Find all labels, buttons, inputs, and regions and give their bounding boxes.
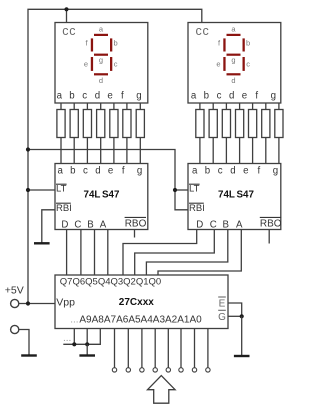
svg-text:a: a	[231, 25, 236, 34]
svg-text:c: c	[246, 60, 250, 69]
wire R11 to U2 pin d	[239, 138, 241, 164]
wire U3 A9 down	[86, 329, 88, 345]
resistor R1	[57, 110, 65, 138]
svg-text:74LS47: 74LS47	[218, 189, 254, 200]
wire stub to DS1 cc pin	[66, 9, 68, 22]
wire R4 to U1 pin d	[100, 138, 102, 164]
junction +5V rail at Vpp wire	[26, 301, 30, 305]
wire U3 A2 down	[180, 329, 182, 368]
svg-text:c: c	[82, 91, 87, 102]
wire U3 A3 down	[167, 329, 169, 368]
wire DS1 pin a to R1	[60, 103, 62, 110]
wire R12 to U2 pin e	[252, 138, 254, 164]
resistor R4	[97, 110, 105, 138]
svg-text:g: g	[231, 56, 235, 65]
wire U3 A5 down	[141, 329, 143, 368]
svg-text:Vpp: Vpp	[56, 297, 75, 309]
wire branch to U2 LT	[175, 189, 188, 191]
svg-text:c: c	[218, 166, 223, 177]
segment g of DS2	[227, 54, 241, 56]
wire DS2 pin f to R13	[265, 103, 267, 110]
wire DS1 pin g to R7	[139, 103, 141, 110]
wire +5V terminal to U3 Vpp	[19, 303, 55, 305]
wire R5 to U1 pin e	[113, 138, 115, 164]
resistor R14	[275, 110, 283, 138]
svg-text:a: a	[58, 166, 64, 177]
wire DS2 pin e to R12	[252, 103, 254, 110]
wire U3 A0 down	[207, 329, 209, 368]
svg-text:...: ...	[70, 314, 78, 325]
open pin A7	[112, 368, 116, 372]
svg-text:d: d	[95, 91, 100, 102]
svg-text:A: A	[100, 220, 107, 231]
svg-text:LT: LT	[189, 183, 200, 194]
svg-text:b: b	[114, 39, 118, 48]
wire U2 D to U3 Q3	[123, 230, 197, 276]
svg-text:b: b	[204, 91, 209, 102]
selector arrow	[148, 376, 176, 404]
segment d of DS1	[94, 73, 108, 75]
svg-text:e: e	[243, 166, 248, 177]
wire U3 A4 down	[154, 329, 156, 368]
stub RBO of U1	[134, 230, 136, 238]
overline of U1 RBO	[125, 216, 146, 218]
svg-text:f: f	[218, 39, 221, 48]
svg-text:a: a	[191, 91, 197, 102]
svg-text:f: f	[122, 166, 125, 177]
svg-text:b: b	[246, 39, 250, 48]
svg-text:A: A	[236, 220, 243, 231]
svg-text:b: b	[70, 166, 75, 177]
svg-text:c: c	[83, 166, 88, 177]
wire U1 D to U3 Q7	[66, 230, 68, 276]
resistor R6	[123, 110, 131, 138]
wire R13 to U2 pin f	[265, 138, 267, 164]
wire DS2 pin b to R9	[212, 103, 214, 110]
svg-text:e: e	[84, 60, 88, 69]
wire GND terminal down	[19, 330, 29, 356]
terminal GND	[11, 325, 19, 333]
junction extra address at ground net	[72, 342, 76, 346]
wire DS1 pin c to R3	[86, 103, 88, 110]
svg-text:Q7Q6Q5Q4Q3Q2Q1Q0: Q7Q6Q5Q4Q3Q2Q1Q0	[60, 276, 161, 287]
svg-text:E: E	[219, 298, 226, 309]
svg-text:C: C	[210, 220, 217, 231]
segment b of DS2	[243, 38, 245, 51]
svg-text:C: C	[74, 220, 81, 231]
svg-text:G: G	[218, 312, 226, 323]
wire R9 to U2 pin b	[212, 138, 214, 164]
wire +5V rail and top cc feed	[28, 9, 202, 303]
wire DS1 pin e to R5	[113, 103, 115, 110]
svg-text:e: e	[108, 166, 113, 177]
svg-text:b: b	[69, 91, 74, 102]
svg-text:...: ...	[63, 333, 71, 344]
svg-text:a: a	[192, 166, 198, 177]
svg-text:f: f	[85, 39, 88, 48]
wire U3 extra address pins down	[73, 329, 75, 345]
segment c of DS1	[110, 57, 112, 71]
svg-text:LT: LT	[56, 183, 67, 194]
wire U1 B to U3 Q5	[94, 230, 96, 276]
svg-text:RBI: RBI	[189, 203, 205, 214]
svg-text:d: d	[230, 166, 235, 177]
segment g of DS1	[94, 54, 108, 56]
junction A9 at ground net	[85, 342, 89, 346]
svg-text:D: D	[196, 220, 203, 231]
resistor R8	[196, 110, 204, 138]
wire R1 to U1 pin a	[60, 138, 62, 164]
wire U1 C to U3 Q6	[80, 230, 82, 276]
wire R2 to U1 pin b	[73, 138, 75, 164]
open pin A6	[126, 368, 130, 372]
resistor R5	[110, 110, 118, 138]
segment d of DS2	[227, 73, 241, 75]
segment e of DS2	[223, 57, 225, 71]
svg-text:A9A8A7A6A5A4A3A2A1A0: A9A8A7A6A5A4A3A2A1A0	[79, 314, 202, 325]
overline of U1 LT	[56, 183, 67, 185]
svg-text:RBO: RBO	[125, 218, 147, 229]
open pin A2	[179, 368, 183, 372]
overline of U2 LT	[189, 183, 200, 185]
resistor R10	[222, 110, 230, 138]
ground at U1 RBI	[41, 242, 43, 243]
svg-text:g: g	[136, 91, 141, 102]
junction on +5V rail at U1 LT	[26, 188, 30, 192]
junction at U2 LT branch	[173, 188, 177, 192]
segment a of DS2	[227, 34, 241, 36]
stub RBO of U2	[268, 230, 270, 244]
svg-text:f: f	[255, 91, 258, 102]
overline of U2 RBI	[189, 202, 204, 204]
svg-text:RBI: RBI	[56, 203, 72, 214]
open pin A4	[153, 368, 157, 372]
7-segment display DS1 body	[55, 23, 148, 104]
segment b of DS1	[110, 38, 112, 51]
wire U1 RBI to ground	[42, 210, 55, 244]
resistor R11	[236, 110, 244, 138]
wire DS1 pin f to R6	[126, 103, 128, 110]
wire U2 C to U3 Q2	[135, 230, 215, 276]
segment f of DS2	[223, 38, 225, 51]
svg-text:B: B	[87, 220, 93, 231]
overline of U3 E	[218, 296, 226, 298]
ground at U3 E/G	[241, 316, 243, 356]
wire DS2 pin d to R11	[239, 103, 241, 110]
svg-text:e: e	[107, 91, 112, 102]
svg-text:g: g	[271, 91, 276, 102]
svg-text:d: d	[231, 76, 235, 85]
resistor R12	[249, 110, 257, 138]
EPROM U3 27Cxxx body	[55, 275, 228, 329]
resistor R9	[209, 110, 217, 138]
wire DS1 pin d to R4	[100, 103, 102, 110]
wire DS2 pin g to R14	[278, 103, 280, 110]
wire DS1 pin b to R2	[73, 103, 75, 110]
svg-text:d: d	[99, 76, 103, 85]
wire R7 to U1 pin g	[139, 138, 141, 164]
svg-text:g: g	[137, 166, 142, 177]
wire R8 to U2 pin a	[199, 138, 201, 164]
wire +5V to U2 LT/RBI	[28, 150, 188, 210]
resistor R13	[262, 110, 270, 138]
open pin A0	[206, 368, 210, 372]
7-segment display DS2 body	[188, 23, 281, 104]
decoder U1 74LS47 body	[55, 164, 148, 230]
svg-text:D: D	[61, 220, 68, 231]
open pin A5	[140, 368, 144, 372]
resistor R3	[83, 110, 91, 138]
overline of U1 RBI	[56, 202, 71, 204]
open pin A1	[192, 368, 196, 372]
svg-text:a: a	[57, 91, 63, 102]
svg-text:a: a	[99, 25, 104, 34]
decoder U2 74LS47 body	[188, 164, 281, 230]
overline of U3 G	[218, 309, 226, 311]
svg-text:e: e	[216, 60, 220, 69]
terminal +5V	[11, 299, 19, 307]
ground at A9/A8 net	[86, 344, 88, 355]
wire DS2 pin c to R10	[225, 103, 227, 110]
wire U2 A to U3 Q0	[158, 230, 241, 276]
overline of U2 RBO	[260, 216, 281, 218]
wire R10 to U2 pin c	[225, 138, 227, 164]
wire R3 to U1 pin c	[86, 138, 88, 164]
svg-text:cc: cc	[62, 24, 76, 38]
svg-text:d: d	[229, 91, 234, 102]
svg-text:+5V: +5V	[5, 285, 24, 297]
svg-text:b: b	[205, 166, 210, 177]
resistor R7	[136, 110, 144, 138]
wire R6 to U1 pin f	[126, 138, 128, 164]
wire R14 to U2 pin g	[278, 138, 280, 164]
svg-text:c: c	[217, 91, 222, 102]
junction E/G net	[240, 314, 244, 318]
segment f of DS1	[91, 38, 93, 51]
svg-text:cc: cc	[196, 24, 210, 38]
segment a of DS1	[94, 34, 108, 36]
wire U3 A8 to ground net	[63, 329, 100, 345]
wire +5V to U1 LT	[28, 189, 55, 191]
wire U3 A6 down	[127, 329, 129, 368]
wire U3 E to ground net	[228, 303, 242, 316]
resistor R2	[70, 110, 78, 138]
wire U2 B to U3 Q1	[146, 230, 227, 276]
svg-text:f: f	[257, 166, 260, 177]
svg-text:c: c	[114, 60, 118, 69]
svg-text:g: g	[273, 166, 278, 177]
svg-text:B: B	[222, 220, 228, 231]
ground at GND terminal	[28, 354, 30, 356]
junction on +5V rail at LT/RBI feed	[26, 147, 30, 151]
wire DS2 pin a to R8	[199, 103, 201, 110]
junction on +5V top wire at DS1 cc	[64, 7, 68, 11]
segment c of DS2	[243, 57, 245, 71]
svg-text:74LS47: 74LS47	[84, 189, 120, 200]
svg-text:27Cxxx: 27Cxxx	[119, 297, 154, 308]
svg-text:e: e	[242, 91, 247, 102]
svg-text:d: d	[95, 166, 100, 177]
wire U1 A to U3 Q4	[107, 230, 109, 276]
svg-text:g: g	[99, 56, 103, 65]
wire U3 A1 down	[194, 329, 196, 368]
segment e of DS1	[91, 57, 93, 71]
svg-text:RBO: RBO	[260, 218, 282, 229]
wire U3 G to ground net	[228, 315, 242, 317]
svg-text:f: f	[121, 91, 124, 102]
wire U3 A7 down	[114, 329, 116, 368]
open pin A3	[166, 368, 170, 372]
